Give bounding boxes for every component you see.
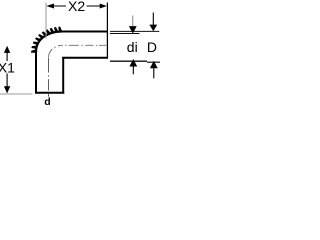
centerline vertical (socket axis) (48, 58, 50, 97)
X2 dimension line (52, 5, 66, 7)
bottom outer extension line (D) (147, 61, 160, 63)
di top arrow stem (132, 16, 134, 28)
bottom inner extension line (di) (110, 60, 147, 62)
wire bottom wall of horizontal pipe (62, 57, 108, 59)
X1 upper stem (6, 53, 8, 62)
X2 right extension line (106, 3, 108, 31)
top outer extension line (D) (110, 30, 159, 32)
X1 up arrowhead (4, 46, 10, 53)
wire bottom end of vertical socket (35, 92, 64, 94)
di top arrowhead (129, 26, 137, 33)
pipe elbow outline (35, 32, 108, 94)
di bottom arrowhead (129, 59, 137, 67)
D top arrow stem (152, 13, 154, 26)
D bottom arrowhead (150, 61, 158, 68)
X1 lower stem (6, 74, 8, 88)
X1 down arrowhead (4, 86, 10, 93)
top inner extension line (di) (110, 33, 140, 35)
D top arrowhead (149, 25, 157, 32)
di bottom arrow stem (132, 66, 134, 74)
svg-text:X2: X2 (68, 0, 85, 14)
wire left wall of vertical socket (35, 52, 37, 94)
X2 left extension line (45, 3, 47, 39)
X2 left arrowhead (46, 4, 54, 9)
wire right wall of vertical socket (62, 57, 64, 94)
svg-text:d: d (44, 96, 50, 108)
pipe end (spigot) right edge (106, 31, 108, 59)
D bottom arrow stem (153, 68, 155, 78)
X2 right arrowhead (100, 4, 107, 9)
X1 bottom extension line (0, 93, 33, 95)
centerline horizontal (pipe axis) (62, 44, 107, 46)
svg-text:X1: X1 (0, 60, 15, 76)
svg-text:D: D (147, 39, 157, 55)
wire top wall of horizontal pipe (61, 31, 109, 33)
centerline bend arc (49, 45, 62, 57)
svg-text:di: di (127, 39, 138, 55)
teeth on outer bend arc (31, 27, 62, 53)
outer bend arc (36, 32, 62, 53)
